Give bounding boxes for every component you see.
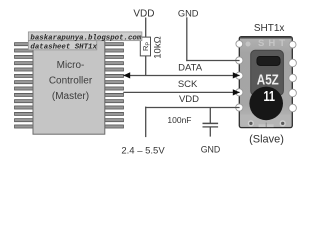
svg-text:datasheet SHT1x: datasheet SHT1x bbox=[30, 44, 97, 52]
svg-text:GND: GND bbox=[201, 144, 221, 154]
svg-text:(Master): (Master) bbox=[52, 91, 89, 102]
svg-text:10kΩ: 10kΩ bbox=[152, 36, 163, 58]
svg-text:100nF: 100nF bbox=[167, 115, 191, 125]
svg-text:2.4 – 5.5V: 2.4 – 5.5V bbox=[121, 146, 165, 157]
svg-text:SCK: SCK bbox=[178, 79, 198, 90]
svg-text:A5Z: A5Z bbox=[257, 71, 279, 88]
svg-text:SHT1x: SHT1x bbox=[254, 23, 285, 34]
svg-text:Controller: Controller bbox=[49, 75, 93, 86]
svg-text:SHT: SHT bbox=[258, 38, 289, 49]
svg-text:DATA: DATA bbox=[178, 63, 203, 74]
svg-text:VDD: VDD bbox=[179, 94, 199, 105]
svg-text:baskarapunya.blogspot.com: baskarapunya.blogspot.com bbox=[30, 35, 141, 43]
svg-text:11: 11 bbox=[263, 88, 275, 105]
svg-text:GND: GND bbox=[178, 8, 199, 18]
svg-text:VDD: VDD bbox=[133, 8, 154, 19]
svg-text:Micro-: Micro- bbox=[57, 60, 85, 71]
svg-text:(Slave): (Slave) bbox=[249, 133, 284, 145]
